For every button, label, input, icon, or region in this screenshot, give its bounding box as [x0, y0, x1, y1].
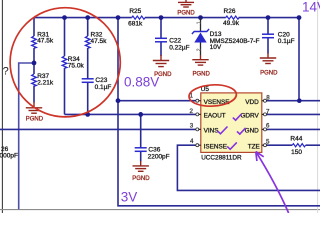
wire C22 drop — [160, 18, 162, 38]
svg-text:0.88V: 0.88V — [124, 75, 159, 90]
junction at VSENSE column top — [116, 15, 121, 20]
annotation check VINS — [217, 127, 227, 134]
wire R31 column — [33, 18, 35, 36]
resistor R37 — [32, 73, 54, 86]
wire GDRV — [267, 113, 320, 115]
svg-text:VINS: VINS — [204, 128, 219, 135]
capacitor C36 — [135, 147, 170, 161]
wire C36 to ground — [140, 152, 142, 162]
wire from node to left vertical drop — [19, 63, 34, 209]
svg-text:150: 150 — [291, 149, 302, 156]
svg-text:VDD: VDD — [245, 99, 259, 106]
pin 3 stub — [195, 128, 201, 130]
wire R37 to ground — [33, 86, 35, 103]
junction at C22 top — [159, 15, 164, 20]
svg-text:UCC28811DR: UCC28811DR — [201, 155, 242, 162]
svg-text:GDRV: GDRV — [240, 113, 259, 120]
pin 6 terminal circle — [264, 128, 267, 131]
svg-text:PGND: PGND — [26, 116, 44, 122]
junction at D13 top — [198, 15, 203, 20]
wire GND — [267, 128, 320, 130]
svg-text:000pF: 000pF — [0, 153, 18, 160]
svg-text:0.22µF: 0.22µF — [169, 44, 189, 51]
pin 4 stub — [195, 144, 201, 146]
svg-text:47.5k: 47.5k — [91, 38, 108, 45]
junction at C20 top — [266, 15, 271, 20]
wire R31 to R37 — [33, 48, 35, 74]
junction R31/R37 node — [32, 61, 37, 66]
resistor R32 — [85, 31, 107, 48]
wire R34 to EAOUT rail — [64, 68, 66, 114]
sheet border right faint — [317, 0, 319, 213]
svg-text:2: 2 — [197, 48, 203, 51]
ground PGND top — [178, 0, 194, 7]
svg-text:PGND: PGND — [177, 10, 195, 16]
svg-text:681k: 681k — [128, 20, 143, 27]
annotation check GND — [237, 128, 246, 134]
svg-text:R25: R25 — [129, 8, 141, 15]
svg-text:49.9k: 49.9k — [223, 20, 240, 27]
pin 4 terminal circle — [196, 144, 199, 147]
wire VDD to 14V — [267, 100, 320, 102]
resistor R31 — [32, 31, 54, 48]
svg-text:14V: 14V — [302, 0, 320, 14]
svg-text:D13: D13 — [210, 31, 222, 38]
pin 6 stub — [262, 128, 267, 130]
svg-text:?: ? — [3, 66, 9, 78]
ground PGND under C22 — [153, 55, 169, 67]
junction VDD/14V node — [297, 98, 302, 103]
annotation arrow to TZE — [256, 152, 289, 213]
resistor R44 — [290, 136, 305, 156]
wire VINS rail — [0, 128, 195, 130]
annotation red circle left — [10, 8, 120, 117]
pin 3 terminal circle — [196, 128, 199, 131]
pin 1 stub — [195, 100, 201, 102]
pin 2 stub — [195, 113, 201, 115]
wire top rail left — [34, 17, 132, 19]
ground PGND under C20 — [260, 53, 276, 64]
sheet border left — [1, 0, 3, 213]
wire C20 drop — [267, 18, 269, 34]
svg-text:3: 3 — [190, 123, 194, 130]
wire EAOUT rail — [65, 113, 196, 115]
pin 8 terminal circle — [264, 99, 267, 102]
annotation check GDRV — [233, 114, 242, 120]
wire TZE to R44 — [267, 144, 293, 146]
svg-text:2: 2 — [190, 108, 194, 115]
svg-text:PGND: PGND — [193, 72, 211, 78]
wire R44 right — [306, 144, 320, 146]
ground PGND under D13 — [192, 55, 208, 65]
diode D13 (zener) — [192, 18, 260, 55]
pin 1 terminal circle — [196, 99, 199, 102]
junction C23 bottom — [85, 112, 90, 117]
capacitor C23 — [82, 77, 112, 91]
svg-text:VSENSE: VSENSE — [204, 99, 230, 106]
wire VSENSE vertical and 3V bottom — [118, 18, 320, 206]
wire ISENSE loop — [177, 145, 320, 190]
capacitor C22 — [155, 38, 190, 52]
pin 8 stub — [262, 100, 267, 102]
svg-text:0.1µF: 0.1µF — [278, 38, 295, 45]
ground PGND under C36 — [133, 161, 149, 171]
resistor R34 — [62, 56, 84, 70]
annotation check ISENSE — [227, 142, 237, 149]
annotation red ellipse U5 — [188, 84, 236, 108]
wire R34 column — [64, 18, 66, 56]
wire C23 to EAOUT rail — [87, 83, 89, 115]
svg-text:2.21k: 2.21k — [37, 79, 54, 86]
resistor R26 — [223, 8, 240, 27]
junction at 14V corner — [297, 15, 302, 20]
junction at R34 top — [62, 15, 67, 20]
pin 2 terminal circle — [196, 113, 199, 116]
svg-text:PGND: PGND — [132, 176, 150, 182]
IC U5 UCC28811DR — [201, 86, 262, 162]
pin 5 stub — [262, 144, 267, 146]
svg-text:1: 1 — [197, 21, 203, 24]
svg-text:10V: 10V — [210, 44, 222, 51]
wire top rail mid — [145, 17, 226, 19]
junction at R32 top — [85, 15, 90, 20]
svg-text:PGND: PGND — [260, 71, 278, 77]
sheet border bottom — [0, 209, 320, 211]
wire C36 branch — [140, 114, 142, 147]
wire C22 to ground — [160, 42, 162, 56]
svg-text:R44: R44 — [290, 136, 302, 143]
svg-text:ISENSE: ISENSE — [204, 143, 227, 150]
svg-text:GND: GND — [245, 128, 260, 135]
junction C36 top — [138, 112, 143, 117]
pin 7 stub — [262, 113, 267, 115]
wire VSENSE — [118, 100, 195, 102]
wire R32 to C23 — [87, 48, 89, 79]
svg-text:3V: 3V — [121, 189, 138, 204]
svg-text:47.5k: 47.5k — [37, 38, 54, 45]
wire 14V vertical — [298, 18, 300, 101]
pin 7 terminal circle — [264, 113, 267, 116]
svg-text:EAOUT: EAOUT — [204, 113, 226, 120]
wire R32 column — [87, 18, 89, 36]
svg-text:4: 4 — [190, 138, 194, 145]
capacitor C20 — [262, 31, 295, 45]
svg-text:2200pF: 2200pF — [148, 153, 170, 160]
ground PGND under R37 — [26, 102, 42, 113]
pin 5 terminal circle — [264, 144, 267, 147]
svg-text:0.1µF: 0.1µF — [95, 84, 112, 91]
resistor R25 — [128, 8, 145, 28]
svg-text:75.0k: 75.0k — [68, 63, 85, 70]
wire top rail right — [239, 17, 300, 19]
svg-text:R26: R26 — [224, 8, 236, 15]
wire C20 to ground — [267, 38, 269, 54]
junction VSENSE node — [116, 98, 121, 103]
svg-text:TZE: TZE — [248, 143, 260, 150]
